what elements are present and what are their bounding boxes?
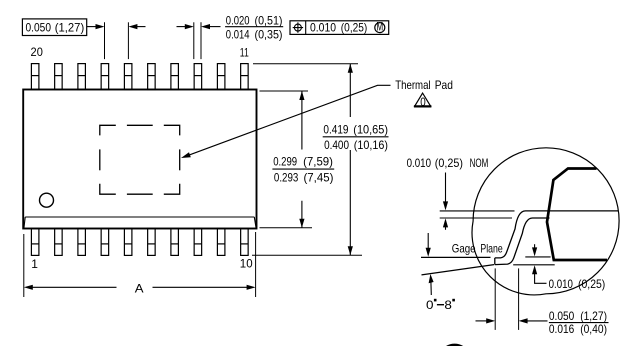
svg-text:0.010: 0.010	[549, 277, 574, 291]
foot length extension line (lead tip)	[494, 268, 496, 330]
svg-text:0: 0	[426, 298, 434, 312]
pitch dimension box 0.050 (1,27)	[22, 19, 86, 36]
svg-text:(7,59): (7,59)	[303, 155, 333, 169]
position tolerance symbol	[293, 22, 303, 32]
svg-text:(0,25): (0,25)	[435, 156, 463, 170]
svg-text:M: M	[376, 20, 383, 34]
svg-text:(0,35): (0,35)	[255, 27, 283, 41]
svg-text:0.010: 0.010	[310, 21, 336, 35]
pin 17	[101, 64, 109, 90]
gage plane arrow	[426, 233, 431, 257]
svg-text:Gage: Gage	[452, 241, 476, 255]
fraction bar	[272, 168, 334, 170]
lead width arrow (left-pointing)	[201, 24, 221, 29]
svg-text:0.299: 0.299	[273, 155, 297, 169]
A dimension line with arrows	[24, 285, 256, 290]
pin 11	[241, 64, 249, 90]
svg-text:(0,25): (0,25)	[578, 277, 605, 291]
svg-text:0.014: 0.014	[226, 27, 250, 41]
fraction bar	[323, 136, 389, 138]
standoff arrow (up) with leader	[532, 265, 547, 283]
A dimension extension line (right)	[255, 232, 257, 297]
pin 19	[55, 64, 63, 90]
lead plane line (upper)	[440, 210, 515, 212]
svg-text:0.010: 0.010	[407, 156, 432, 170]
foot angle line 0-8 deg	[422, 265, 495, 275]
pin 8	[194, 229, 202, 256]
lead top surface	[495, 211, 619, 258]
svg-text:NOM: NOM	[470, 156, 489, 170]
pin 10	[241, 229, 249, 256]
svg-text:(10,16): (10,16)	[354, 138, 388, 152]
thermal pad (dashed square)	[100, 125, 180, 194]
svg-text:0.419: 0.419	[323, 122, 348, 136]
svg-text:11: 11	[240, 46, 249, 60]
pin 20	[31, 64, 39, 90]
pin 1 index circle	[40, 193, 54, 207]
svg-text:(1,27): (1,27)	[55, 21, 84, 35]
pin 4	[101, 229, 109, 256]
svg-text:0.016: 0.016	[549, 322, 575, 336]
svg-text:Thermal: Thermal	[395, 78, 430, 92]
extension line from body bottom edge	[260, 227, 313, 229]
extension line from pin 11 tips	[253, 63, 358, 65]
fraction bar	[225, 26, 283, 28]
svg-text:0.293: 0.293	[274, 170, 299, 184]
svg-text:0.050: 0.050	[549, 309, 575, 323]
standoff upper reference line	[525, 256, 550, 258]
standoff arrow (down)	[532, 244, 537, 256]
svg-text:1: 1	[31, 257, 38, 271]
package body (top view)	[23, 90, 256, 229]
pitch extension line (pin 16 center)	[127, 22, 129, 59]
pin 15	[148, 64, 156, 90]
svg-text:0.050: 0.050	[26, 21, 52, 35]
pin 9	[217, 229, 225, 256]
A dimension extension line (left)	[23, 234, 25, 297]
pin 7	[171, 229, 179, 256]
lead plane line (lower)	[440, 217, 512, 219]
pitch dimension leader arrow	[87, 24, 105, 29]
foot angle label	[426, 298, 455, 312]
svg-text:(0,40): (0,40)	[580, 322, 607, 336]
pin 13	[194, 64, 202, 90]
standoff lower reference line	[513, 264, 555, 266]
gage plane line	[421, 256, 491, 258]
lead thickness arrow (down)	[443, 173, 448, 211]
svg-text:Plane: Plane	[480, 241, 503, 255]
pin 1	[31, 229, 39, 256]
pin 18	[78, 64, 86, 90]
svg-text:(0,51): (0,51)	[255, 14, 283, 28]
foot length arrow (left-pointing)	[519, 318, 548, 323]
svg-text:8: 8	[444, 298, 452, 312]
svg-text:0: 0	[420, 95, 426, 109]
fraction bar	[549, 322, 609, 324]
MMC modifier symbol	[375, 20, 385, 34]
pin 12	[217, 64, 225, 90]
svg-text:A: A	[135, 281, 144, 295]
lead thickness arrow (up)	[443, 218, 448, 229]
lead width extension line (right edge pin 13)	[200, 22, 202, 59]
svg-text:(10,65): (10,65)	[353, 122, 388, 136]
pitch extension line (pin 17 center)	[104, 22, 106, 59]
foot length arrow (right-pointing)	[476, 318, 496, 323]
svg-text:20: 20	[31, 45, 44, 59]
body bottom flange line	[24, 217, 256, 228]
overall width dimension line (0.419)	[348, 64, 353, 256]
extension line from bottom pin tips	[252, 254, 362, 256]
body cross-section (thick)	[547, 169, 607, 261]
lead width arrow (right-pointing)	[177, 24, 194, 29]
svg-text:10: 10	[240, 257, 253, 271]
foot length extension line (gage plane)	[518, 268, 520, 330]
svg-text:(0,25): (0,25)	[341, 21, 368, 35]
pin 3	[78, 229, 86, 256]
foot angle arrow	[429, 274, 434, 295]
svg-text:(1,27): (1,27)	[580, 309, 607, 323]
pin 5	[124, 229, 131, 256]
lead tip edge	[494, 258, 496, 265]
feature control frame	[290, 21, 389, 35]
note flag triangle	[414, 93, 432, 109]
thermal pad leader	[181, 85, 391, 158]
svg-text:0.020: 0.020	[226, 14, 250, 28]
svg-text:0.400: 0.400	[324, 138, 349, 152]
pitch arrow (left-pointing)	[128, 24, 145, 29]
pin 16	[124, 64, 131, 90]
partial figure-number circle at bottom	[440, 345, 470, 346]
lead bottom surface	[495, 218, 550, 265]
body width dimension line (0.299)	[299, 91, 304, 228]
detail view circle	[472, 148, 619, 295]
svg-text:(7,45): (7,45)	[304, 170, 334, 184]
extension line from body top edge	[260, 90, 309, 92]
lead width extension line (left edge pin 13)	[193, 22, 195, 59]
pin 6	[148, 229, 156, 256]
pin 2	[55, 229, 63, 256]
svg-text:Pad: Pad	[435, 78, 453, 92]
pin 14	[171, 64, 179, 90]
